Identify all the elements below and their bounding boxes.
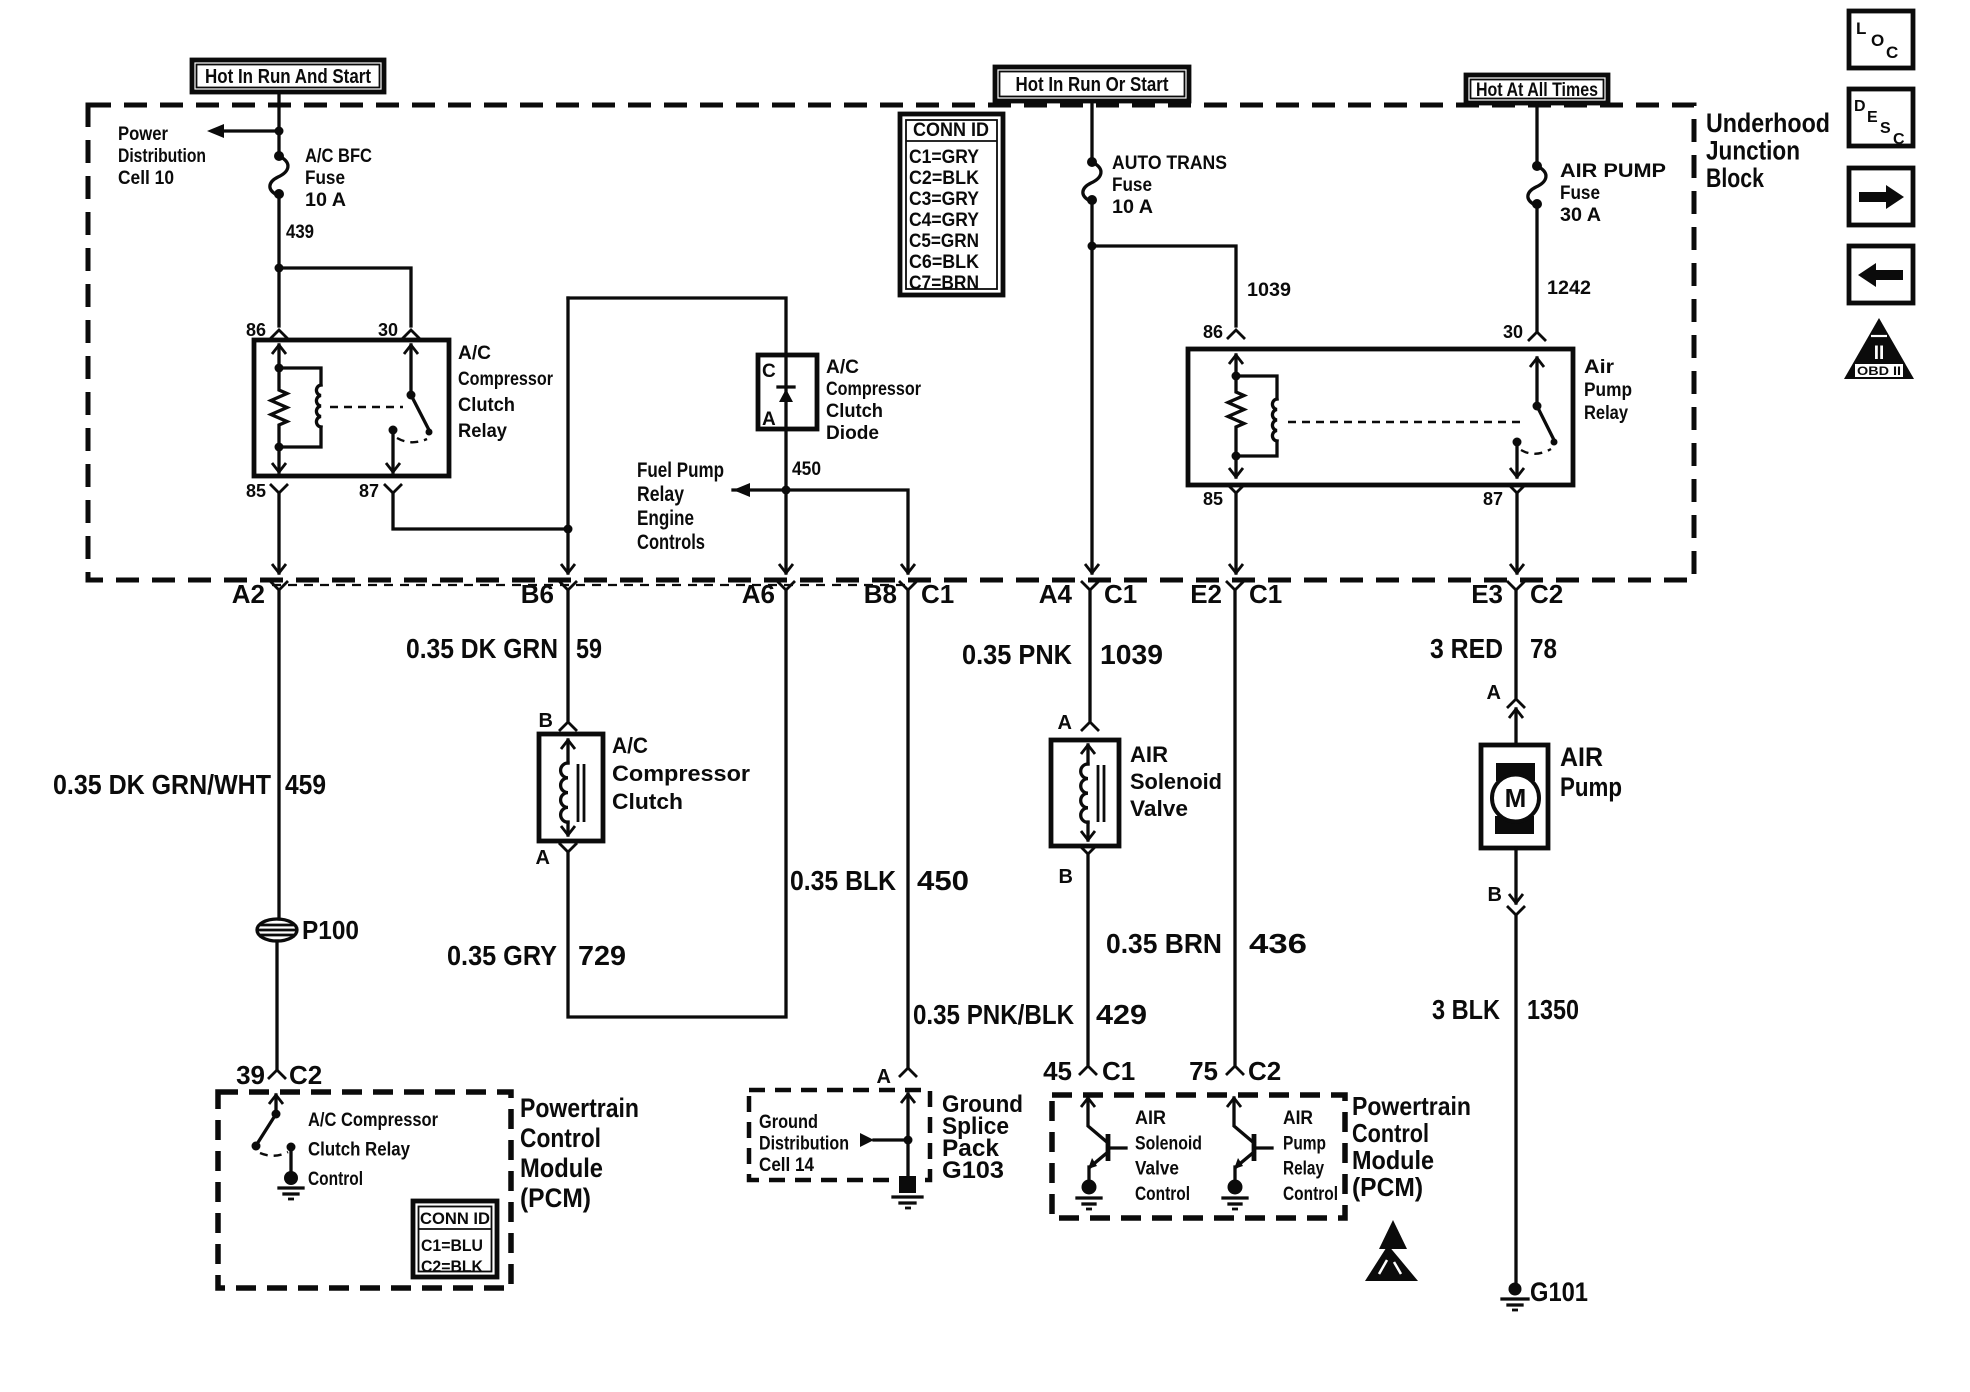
svg-text:Pump: Pump [1560, 772, 1622, 802]
svg-text:C1: C1 [1104, 579, 1137, 609]
svg-text:M: M [1505, 783, 1527, 813]
svg-text:0.35 PNK/BLK: 0.35 PNK/BLK [913, 999, 1074, 1030]
svg-text:Control: Control [520, 1123, 601, 1153]
svg-text:C2=BLK: C2=BLK [421, 1257, 484, 1276]
svg-text:429: 429 [1096, 999, 1147, 1030]
svg-text:Module: Module [1352, 1145, 1434, 1175]
svg-text:Module: Module [520, 1153, 603, 1183]
svg-text:C5=GRN: C5=GRN [909, 231, 979, 252]
svg-text:0.35 DK GRN: 0.35 DK GRN [406, 633, 558, 664]
svg-text:CONN ID: CONN ID [420, 1209, 490, 1228]
svg-text:0.35 PNK: 0.35 PNK [962, 639, 1072, 670]
svg-text:1350: 1350 [1527, 994, 1579, 1025]
svg-text:87: 87 [359, 481, 379, 501]
svg-text:Relay: Relay [637, 483, 684, 506]
svg-text:E2: E2 [1190, 579, 1222, 609]
svg-text:10 A: 10 A [305, 190, 346, 211]
svg-text:A2: A2 [232, 579, 265, 609]
svg-text:C6=BLK: C6=BLK [909, 252, 979, 273]
svg-text:C: C [1893, 131, 1905, 148]
svg-text:B: B [1488, 884, 1502, 906]
svg-text:3 RED: 3 RED [1430, 633, 1503, 664]
svg-text:C1: C1 [921, 579, 954, 609]
svg-text:Distribution: Distribution [759, 1134, 849, 1155]
svg-text:Clutch: Clutch [458, 395, 515, 416]
svg-text:Power: Power [118, 124, 169, 145]
svg-text:Block: Block [1706, 163, 1765, 193]
svg-text:D: D [1854, 98, 1866, 115]
svg-text:Cell 10: Cell 10 [118, 168, 174, 189]
svg-text:30: 30 [378, 320, 398, 340]
svg-text:C1=GRY: C1=GRY [909, 147, 979, 168]
svg-text:78: 78 [1530, 633, 1557, 664]
svg-text:E: E [1867, 109, 1878, 126]
svg-text:Fuse: Fuse [1112, 175, 1152, 196]
svg-text:0.35 BRN: 0.35 BRN [1106, 928, 1222, 959]
svg-text:Engine: Engine [637, 507, 694, 530]
svg-text:Powertrain: Powertrain [1352, 1091, 1471, 1121]
svg-text:AIR: AIR [1135, 1108, 1166, 1129]
svg-text:G103: G103 [942, 1157, 1004, 1184]
svg-text:A/C: A/C [826, 357, 859, 378]
svg-text:85: 85 [1203, 489, 1223, 509]
svg-text:C2=BLK: C2=BLK [909, 168, 979, 189]
svg-text:A: A [762, 409, 776, 430]
svg-text:30: 30 [1503, 322, 1523, 342]
svg-text:Compressor: Compressor [612, 761, 750, 786]
svg-text:(PCM): (PCM) [1352, 1172, 1423, 1202]
svg-text:Junction: Junction [1706, 136, 1800, 166]
svg-text:C4=GRY: C4=GRY [909, 210, 979, 231]
svg-text:436: 436 [1249, 928, 1307, 959]
svg-text:Valve: Valve [1130, 796, 1188, 821]
svg-text:Hot At All Times: Hot At All Times [1476, 80, 1598, 101]
svg-text:CONN ID: CONN ID [913, 120, 989, 141]
svg-text:A/C BFC: A/C BFC [305, 146, 372, 167]
svg-text:Compressor: Compressor [458, 369, 554, 390]
svg-text:0.35 BLK: 0.35 BLK [790, 865, 896, 896]
svg-text:75: 75 [1189, 1056, 1218, 1086]
svg-text:39: 39 [236, 1060, 265, 1090]
svg-text:Clutch: Clutch [826, 401, 883, 422]
svg-text:Ground: Ground [759, 1112, 818, 1133]
svg-text:A/C: A/C [458, 343, 491, 364]
svg-text:59: 59 [576, 633, 602, 664]
svg-text:C1=BLU: C1=BLU [421, 1236, 483, 1255]
svg-text:Fuse: Fuse [1560, 183, 1600, 204]
svg-text:729: 729 [578, 940, 626, 971]
svg-text:L: L [1856, 19, 1866, 38]
svg-text:86: 86 [246, 320, 266, 340]
svg-text:OBD II: OBD II [1857, 364, 1901, 378]
svg-text:C: C [1886, 43, 1898, 62]
svg-text:C2: C2 [1530, 579, 1563, 609]
svg-text:P100: P100 [302, 915, 359, 945]
svg-text:Control: Control [1283, 1184, 1338, 1205]
svg-text:Control: Control [308, 1169, 363, 1190]
svg-text:B: B [1059, 866, 1073, 888]
svg-text:450: 450 [792, 459, 821, 480]
svg-text:Clutch Relay: Clutch Relay [308, 1140, 410, 1161]
svg-text:C1: C1 [1102, 1056, 1135, 1086]
svg-text:B8: B8 [864, 579, 897, 609]
svg-text:459: 459 [285, 769, 326, 800]
svg-text:A: A [536, 847, 550, 869]
svg-text:Hot In Run And Start: Hot In Run And Start [205, 66, 371, 88]
svg-text:10 A: 10 A [1112, 197, 1153, 218]
svg-text:1242: 1242 [1547, 278, 1591, 299]
svg-text:C2: C2 [289, 1060, 322, 1090]
svg-text:A/C: A/C [612, 733, 648, 758]
svg-text:II: II [1874, 343, 1885, 364]
svg-text:C: C [762, 361, 776, 382]
svg-text:1039: 1039 [1100, 639, 1163, 670]
svg-text:C3=GRY: C3=GRY [909, 189, 979, 210]
svg-text:Controls: Controls [637, 531, 705, 554]
svg-text:Underhood: Underhood [1706, 108, 1830, 138]
svg-text:0.35 DK GRN/WHT: 0.35 DK GRN/WHT [53, 769, 271, 800]
svg-text:Pump: Pump [1584, 380, 1632, 401]
svg-text:Compressor: Compressor [826, 379, 922, 400]
svg-text:Relay: Relay [1584, 403, 1628, 424]
svg-text:Relay: Relay [1283, 1159, 1324, 1180]
svg-text:Valve: Valve [1135, 1159, 1179, 1180]
svg-text:Air: Air [1584, 357, 1615, 378]
svg-text:(PCM): (PCM) [520, 1183, 591, 1213]
svg-text:B: B [539, 710, 553, 732]
svg-text:Powertrain: Powertrain [520, 1093, 639, 1123]
svg-text:1039: 1039 [1247, 280, 1291, 301]
svg-text:Distribution: Distribution [118, 146, 206, 167]
svg-text:Diode: Diode [826, 423, 879, 444]
svg-text:A: A [1058, 712, 1072, 734]
svg-text:Control: Control [1135, 1184, 1190, 1205]
svg-text:B6: B6 [521, 579, 554, 609]
svg-text:Relay: Relay [458, 421, 507, 442]
svg-text:Hot In Run Or Start: Hot In Run Or Start [1016, 74, 1169, 96]
svg-text:S: S [1880, 120, 1891, 137]
svg-text:Cell 14: Cell 14 [759, 1155, 814, 1176]
svg-text:A: A [1487, 682, 1501, 704]
svg-text:85: 85 [246, 481, 266, 501]
svg-text:86: 86 [1203, 322, 1223, 342]
svg-text:Control: Control [1352, 1118, 1429, 1148]
svg-text:87: 87 [1483, 489, 1503, 509]
svg-text:Clutch: Clutch [612, 789, 683, 814]
svg-text:Pump: Pump [1283, 1133, 1326, 1154]
svg-text:Fuel Pump: Fuel Pump [637, 459, 724, 482]
svg-text:Solenoid: Solenoid [1135, 1133, 1202, 1154]
svg-text:C1: C1 [1249, 579, 1282, 609]
svg-text:AIR: AIR [1283, 1108, 1313, 1129]
svg-text:AIR PUMP: AIR PUMP [1560, 161, 1666, 182]
svg-text:AIR: AIR [1130, 742, 1168, 767]
svg-text:A: A [877, 1066, 891, 1088]
svg-text:AUTO TRANS: AUTO TRANS [1112, 153, 1227, 174]
svg-text:Solenoid: Solenoid [1130, 769, 1222, 794]
svg-text:C2: C2 [1248, 1056, 1281, 1086]
svg-text:3 BLK: 3 BLK [1432, 994, 1500, 1025]
svg-text:450: 450 [917, 865, 969, 896]
svg-text:45: 45 [1043, 1056, 1072, 1086]
svg-text:0.35 GRY: 0.35 GRY [447, 940, 557, 971]
svg-text:Fuse: Fuse [305, 168, 345, 189]
svg-text:O: O [1871, 31, 1884, 50]
svg-text:A/C Compressor: A/C Compressor [308, 1110, 439, 1131]
svg-text:G101: G101 [1530, 1277, 1588, 1307]
svg-text:AIR: AIR [1560, 742, 1603, 772]
svg-text:30 A: 30 A [1560, 205, 1601, 226]
svg-text:E3: E3 [1471, 579, 1503, 609]
svg-text:A4: A4 [1039, 579, 1073, 609]
svg-text:A6: A6 [742, 579, 775, 609]
svg-text:439: 439 [286, 222, 314, 243]
svg-text:C7=BRN: C7=BRN [909, 273, 979, 294]
